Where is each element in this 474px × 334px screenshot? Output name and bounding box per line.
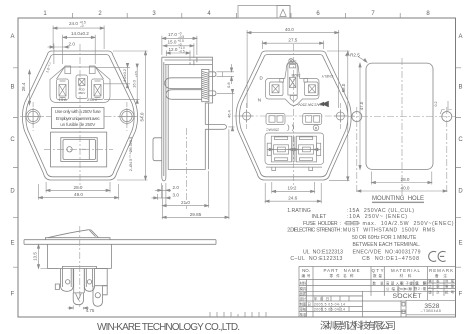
svg-text:WIN-KARE TECHNOLOGY CO.,LTD.: WIN-KARE TECHNOLOGY CO.,LTD. <box>97 322 240 333</box>
svg-text:–0: –0 <box>80 24 84 28</box>
svg-text:14.0±0.2: 14.0±0.2 <box>71 31 89 36</box>
svg-text:制图: 制图 <box>300 301 307 306</box>
logo dark arrow <box>319 101 329 107</box>
leader 4-R2.5 <box>358 57 367 63</box>
dim 24.6 bottom <box>265 183 321 203</box>
svg-text:0.2: 0.2 <box>434 102 438 107</box>
grid ticks left <box>13 68 18 267</box>
svg-text:FUSE HOLDER :: FUSE HOLDER : <box>303 221 341 227</box>
svg-text:D: D <box>10 189 15 195</box>
svg-text:2–Ø4.5⁺⁰·⁵Ø6.0±0.5: 2–Ø4.5⁺⁰·⁵Ø6.0±0.5 <box>129 137 133 171</box>
left mounting hole circle inner <box>28 111 38 121</box>
lower terminal left <box>266 114 285 125</box>
centerline vertical left view <box>20 44 141 188</box>
svg-text:材 料: 材 料 <box>400 273 412 278</box>
left view outer outline <box>22 51 137 180</box>
3528 small cell squares <box>402 303 405 307</box>
dim 24.0 line <box>53 26 104 50</box>
svg-text:2005.5 05·04·14: 2005.5 05·04·14 <box>314 302 345 306</box>
dim 28.4 vertical <box>28 70 30 105</box>
svg-text:PART NAME: PART NAME <box>324 268 360 273</box>
svg-text:3.0: 3.0 <box>173 193 180 198</box>
inlet rear cloud outline <box>266 62 320 106</box>
body step lines <box>190 57 197 65</box>
svg-text:250V~: 250V~ <box>87 97 101 102</box>
dim 28.0 bottom <box>46 182 110 193</box>
switch centerline <box>44 148 113 150</box>
svg-text:50 OR 60Hz FOR 1 MINUTE: 50 OR 60Hz FOR 1 MINUTE <box>352 235 417 241</box>
terminal lug right <box>84 269 94 292</box>
right view outer outline <box>236 51 351 180</box>
drawer divider <box>293 136 295 162</box>
pin 2 <box>209 91 216 96</box>
left hole crosshair <box>25 108 42 125</box>
dim 12.0 <box>166 50 190 61</box>
centerline horizontal ears <box>20 115 141 117</box>
rocker wedge <box>48 230 99 238</box>
left side tab <box>55 284 59 289</box>
svg-text:Employer uniquement avec: Employer uniquement avec <box>56 116 101 121</box>
dim 27.5 top <box>262 41 323 49</box>
dim 21.0 <box>162 171 208 208</box>
lug left hole <box>66 280 70 284</box>
drawer side clips <box>267 143 271 156</box>
top lip <box>162 57 213 64</box>
dim 17.0 <box>162 36 197 55</box>
svg-text:模具: 模具 <box>300 286 307 291</box>
left fuse <box>274 145 289 154</box>
right hole crosshair <box>118 108 135 125</box>
warning label box <box>52 108 105 129</box>
revision triangle box <box>277 6 290 19</box>
right mounting hole circle outer <box>120 109 134 123</box>
svg-text:28.0: 28.0 <box>401 177 410 182</box>
svg-text:F: F <box>11 292 15 298</box>
right fuse <box>299 145 314 154</box>
mounting circle right <box>442 112 452 122</box>
rocker dash symbol <box>81 148 86 150</box>
svg-text:Use only with a 250V fuse: Use only with a 250V fuse <box>55 109 101 114</box>
dim 3.0 bottom <box>152 183 172 206</box>
svg-text:49.0: 49.0 <box>74 192 83 197</box>
circled mark <box>313 125 319 131</box>
svg-text:ENEC/VDE NO:40031779: ENEC/VDE NO:40031779 <box>353 250 421 256</box>
far right tab <box>103 286 108 295</box>
right fuse holder <box>92 79 104 100</box>
svg-text:INLET: INLET <box>312 214 328 220</box>
right view centerlines <box>234 44 355 188</box>
svg-text:40.0: 40.0 <box>401 186 410 191</box>
dim 40.0 mh <box>357 190 447 192</box>
svg-text:REMARK: REMARK <box>429 268 453 273</box>
body row lines <box>299 286 456 315</box>
revision box <box>238 6 290 19</box>
dim 28.0 mh <box>372 172 432 185</box>
rocker O symbol <box>67 147 72 152</box>
CE mark <box>429 251 446 261</box>
body verticals <box>307 280 407 318</box>
fuse arrows <box>267 149 321 151</box>
svg-text:1.RATING: 1.RATING <box>287 208 311 214</box>
svg-text:日: 日 <box>308 302 311 306</box>
dim 54.0 vertical <box>113 51 148 180</box>
switch bezel <box>45 238 110 240</box>
svg-text:MOUNTING HOLE: MOUNTING HOLE <box>372 196 424 202</box>
svg-text:17.0: 17.0 <box>168 32 177 37</box>
svg-text:0.8: 0.8 <box>226 82 231 88</box>
svg-text:MATERIAL: MATERIAL <box>391 268 421 273</box>
terminal lug left <box>61 269 74 292</box>
dim 14.0 line <box>63 35 95 64</box>
svg-text:46.4: 46.4 <box>227 109 232 118</box>
svg-text:12.0: 12.0 <box>169 47 178 52</box>
svg-text:47.0: 47.0 <box>359 101 364 110</box>
svg-text:15.0: 15.0 <box>168 40 177 45</box>
dim 46.4 right <box>217 93 235 127</box>
dim 15.0 <box>163 43 194 58</box>
svg-text:29.85: 29.85 <box>190 212 202 217</box>
dim 58.0 right <box>327 51 350 181</box>
flange inner line <box>164 62 168 176</box>
svg-text:第 張: 第 張 <box>428 278 440 283</box>
drawer bottom lip <box>266 167 322 170</box>
bottom view centerline <box>79 226 81 307</box>
serrated block <box>202 69 209 101</box>
svg-text:2.DIELECTRIC STRENGTH: 2.DIELECTRIC STRENGTH <box>287 228 340 234</box>
left fuse holder <box>57 79 69 100</box>
svg-text:24.0: 24.0 <box>69 21 78 26</box>
svg-text:编号: 编号 <box>302 273 311 278</box>
svg-text:N: N <box>258 97 262 103</box>
right fuse holder inner <box>94 85 101 97</box>
mounting cutout rect <box>366 63 433 169</box>
svg-text:4–R2.5: 4–R2.5 <box>345 53 360 58</box>
svg-text:58.0: 58.0 <box>341 83 346 92</box>
svg-text:之 張: 之 張 <box>428 284 440 289</box>
svg-text:数量: 数量 <box>373 273 382 278</box>
svg-text::10A 250V~ (ENEC): :10A 250V~ (ENEC) <box>347 214 407 220</box>
dim 16.0 vertical <box>104 68 140 100</box>
svg-text:4.75: 4.75 <box>86 308 95 313</box>
svg-text:BETWEEN EACH TERMINAL.: BETWEEN EACH TERMINAL. <box>353 242 421 248</box>
side tab <box>205 125 226 130</box>
inlet face outline <box>50 67 110 103</box>
svg-text:NO.: NO. <box>302 268 310 273</box>
switch body <box>47 244 111 268</box>
fuse finger 1 <box>165 78 202 89</box>
svg-text:E: E <box>10 241 14 247</box>
revision triangle <box>280 9 286 16</box>
left fuse holder inner <box>59 85 66 97</box>
tiny cell texts <box>300 278 455 317</box>
right spade <box>93 286 103 307</box>
body outline <box>165 65 213 170</box>
svg-text:F: F <box>459 292 463 298</box>
ruler ticks bottom <box>210 312 266 317</box>
svg-text:材料: 材料 <box>300 280 307 285</box>
svg-text:设计: 设计 <box>300 296 307 301</box>
ground mark top center <box>289 59 293 63</box>
svg-text:單 位: 單 位 <box>400 280 414 285</box>
dim 0.2 <box>440 101 452 114</box>
center tab <box>74 269 85 293</box>
moon arcs <box>288 125 294 132</box>
center spade <box>73 293 83 305</box>
svg-text:弒 号: 弒 号 <box>445 290 455 295</box>
svg-text::MUST WITHSTAND 1500V RMS: :MUST WITHSTAND 1500V RMS <box>341 228 436 234</box>
svg-text:核准: 核准 <box>300 312 307 317</box>
flange plate <box>162 57 166 181</box>
svg-text:27.5: 27.5 <box>288 38 297 43</box>
center connector pin <box>79 79 85 86</box>
svg-text:品质: 品质 <box>300 291 307 296</box>
dim 2.0 bottom <box>155 183 171 199</box>
svg-text:比 例: 比 例 <box>416 280 428 285</box>
rocker protrusion <box>153 138 162 161</box>
rocker button <box>63 140 96 160</box>
svg-text:250VAC: 250VAC <box>265 128 279 132</box>
marking 3528 upside down <box>258 59 334 131</box>
dim 40.0 top <box>247 30 339 108</box>
svg-text:C: C <box>10 137 15 143</box>
svg-text:C–UL NO:E122313: C–UL NO:E122313 <box>290 256 342 262</box>
svg-text:E: E <box>458 241 462 247</box>
svg-text:D: D <box>458 189 463 195</box>
left tower <box>270 82 284 96</box>
svg-text:21.0: 21.0 <box>181 200 190 205</box>
dim 0.8 right <box>217 64 235 84</box>
mounting centerline v <box>401 58 403 196</box>
fuse finger 2 <box>166 90 202 100</box>
rocker switch outer <box>51 132 107 167</box>
header row line <box>299 279 456 281</box>
svg-text:UL NO:E122313: UL NO:E122313 <box>303 250 343 256</box>
svg-text:A: A <box>458 34 462 40</box>
dim 13.5 <box>39 244 59 268</box>
svg-text:C: C <box>458 137 463 143</box>
mounting circle left <box>352 112 362 122</box>
dim 2.0 line <box>48 44 71 65</box>
svg-text:备 注: 备 注 <box>435 273 447 278</box>
fuse symbol in notes <box>344 221 360 224</box>
middle view centerline <box>186 128 188 209</box>
right view left ear hole <box>243 112 251 120</box>
svg-text:QTY: QTY <box>372 268 384 273</box>
center pentagon <box>290 96 297 102</box>
svg-text:+0.5: +0.5 <box>134 71 138 77</box>
dim 19.2 bottom <box>272 182 315 193</box>
right block <box>95 269 108 286</box>
svg-text:审核: 审核 <box>300 306 307 311</box>
svg-text:4.0±0.2: 4.0±0.2 <box>122 68 127 82</box>
svg-text:2.0: 2.0 <box>69 42 76 47</box>
center tower <box>288 64 297 96</box>
svg-text:版 次: 版 次 <box>428 290 440 295</box>
grid ticks right <box>456 68 462 267</box>
svg-text:28.4: 28.4 <box>21 82 26 91</box>
table outline <box>299 267 456 318</box>
svg-text:–0.5: –0.5 <box>179 50 185 54</box>
svg-text:SOCKET: SOCKET <box>393 293 422 300</box>
svg-text:CNELY: CNELY <box>321 74 333 78</box>
svg-text:24.6: 24.6 <box>288 196 297 201</box>
svg-text:共 張: 共 張 <box>445 278 455 283</box>
svg-text:2.0: 2.0 <box>173 185 180 190</box>
svg-text:CB NO:DE1–47508: CB NO:DE1–47508 <box>362 256 419 262</box>
fuse drawer left compartment <box>271 136 291 162</box>
chamfer lines <box>57 67 104 79</box>
svg-text:16.0: 16.0 <box>132 79 137 88</box>
center connector <box>76 75 88 99</box>
panel lines <box>24 240 216 245</box>
svg-text:40.0: 40.0 <box>285 27 294 32</box>
right view inner outline <box>239 55 347 177</box>
dim 29.85 <box>162 129 229 219</box>
right mounting hole circle inner <box>122 111 132 121</box>
mounting centerline h <box>348 116 455 118</box>
right view right ear hole <box>336 112 344 120</box>
svg-text:B: B <box>458 85 462 91</box>
header column lines <box>313 267 427 318</box>
svg-text:第 張: 第 張 <box>445 284 455 289</box>
grid ticks top <box>73 13 401 18</box>
dim 4.0 vertical <box>96 67 130 84</box>
svg-text:–T3B04A5: –T3B04A5 <box>421 309 441 313</box>
lower terminal right <box>303 114 322 125</box>
fuse drawer outline <box>265 133 324 164</box>
dim 47.0 <box>359 63 361 169</box>
lug right hole <box>87 280 91 284</box>
fuse drawer right compartment <box>296 136 316 162</box>
dim 4.75 <box>68 306 90 310</box>
svg-text:2:1: 2:1 <box>418 287 425 291</box>
right tower <box>305 82 319 96</box>
svg-text:max. 10A/2.5W 250V~(ENEC): max. 10A/2.5W 250V~(ENEC) <box>363 221 454 227</box>
svg-text:深圳易凯达科技有限公司: 深圳易凯达科技有限公司 <box>320 320 396 332</box>
body bottom bar <box>47 266 111 268</box>
part name sub cells <box>313 296 363 312</box>
material band sub cells <box>398 280 456 296</box>
pin 1 <box>209 72 216 77</box>
svg-text:28.0: 28.0 <box>74 185 83 190</box>
svg-text:54.0: 54.0 <box>140 112 145 121</box>
svg-text:年 月 日: 年 月 日 <box>314 296 329 301</box>
svg-text:13.5: 13.5 <box>32 252 37 261</box>
svg-text:mm/m: mm/m <box>400 287 412 291</box>
left view inner outline <box>26 55 134 177</box>
svg-text:15A: 15A <box>59 97 67 102</box>
svg-text::15A 250VAC (UL,CUL): :15A 250VAC (UL,CUL) <box>347 208 414 214</box>
left mounting hole circle outer <box>26 109 40 123</box>
svg-text:un fusible de 250V: un fusible de 250V <box>60 122 96 127</box>
svg-text:A: A <box>10 34 14 40</box>
svg-text:B: B <box>10 85 14 91</box>
rocker fold line <box>88 140 90 160</box>
svg-text:250V: 250V <box>78 91 85 95</box>
inlet notch left <box>65 66 71 74</box>
svg-text:2005.5 05·04·14: 2005.5 05·04·14 <box>314 307 345 311</box>
svg-text:19.2: 19.2 <box>288 186 297 191</box>
rocker switch mid <box>61 138 97 162</box>
dim 49.0 bottom <box>39 184 119 200</box>
inlet notch right <box>89 66 95 74</box>
